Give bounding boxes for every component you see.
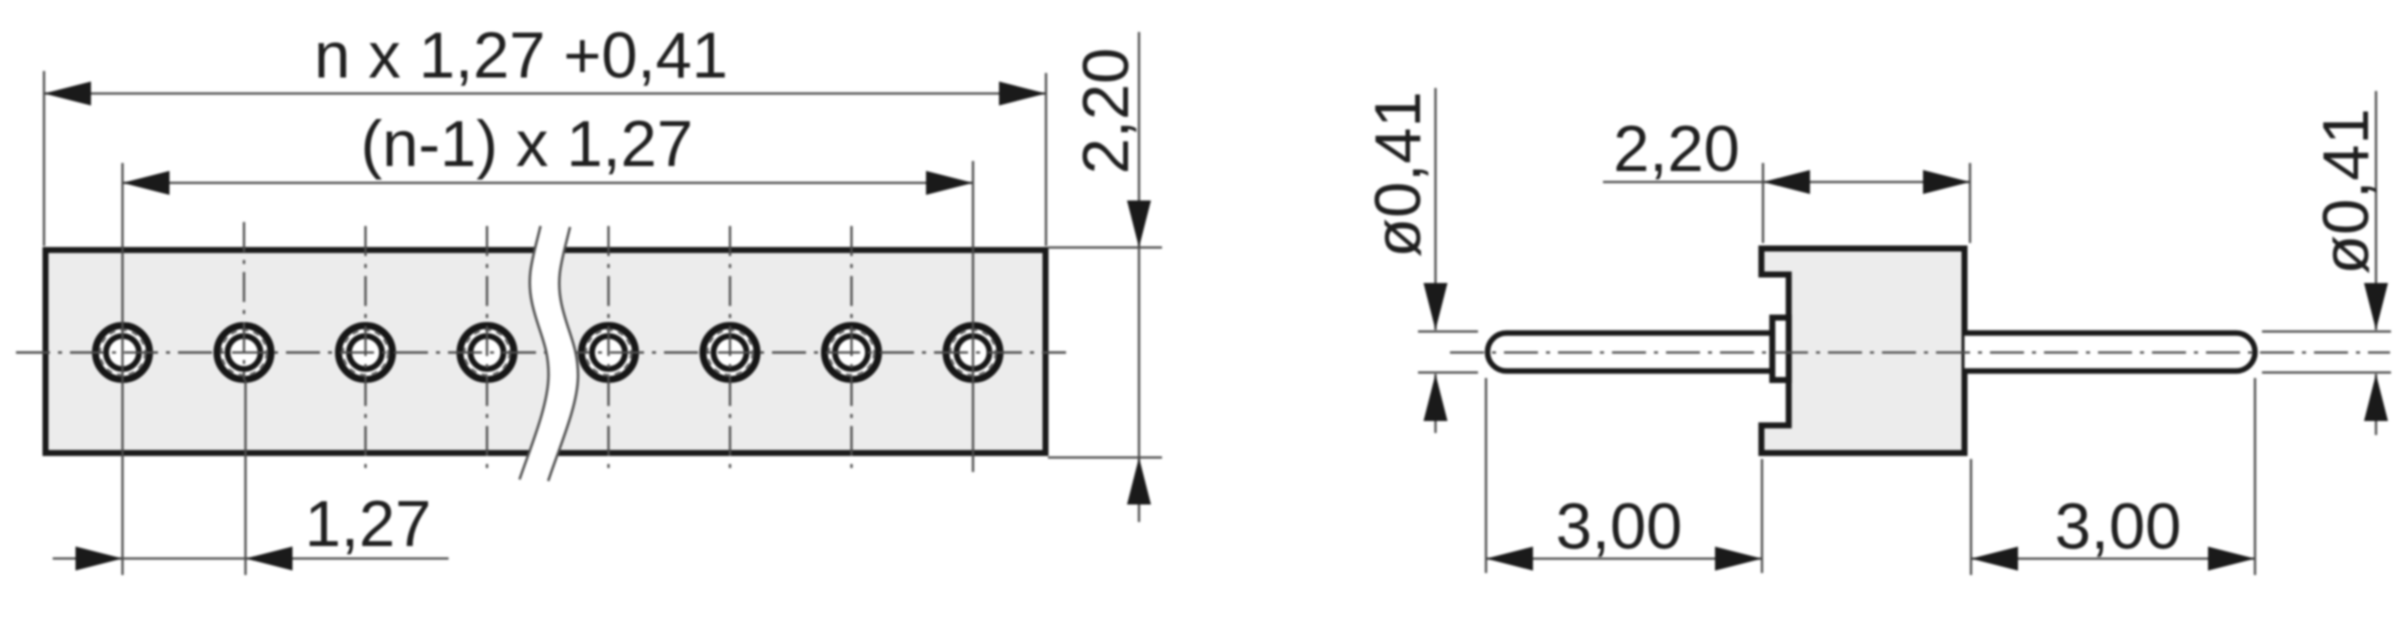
dimension 3,00 left line — [1486, 557, 1762, 559]
arrowhead pointing left at pin left end — [1486, 547, 1533, 571]
pin head in notch — [1772, 318, 1788, 380]
dimension 2,20 line right view — [1603, 181, 1970, 183]
pin 6 vertical centerline — [729, 226, 731, 472]
left pin rod — [1488, 333, 1773, 371]
arrowhead pointing left at body left — [1763, 170, 1810, 194]
centerline over holes — [16, 351, 1066, 353]
extension line right edge (top dim) — [1045, 73, 1047, 246]
arrowhead down at pin top left — [1424, 283, 1448, 330]
arrowhead pointing left at pin2 — [246, 547, 293, 571]
pin 8 vertical extension line — [972, 161, 974, 472]
pin hole 4 — [456, 322, 517, 383]
arrowhead pointing right at body right — [1923, 170, 1970, 194]
svg-text:ø0,41: ø0,41 — [1361, 91, 1434, 257]
arrowhead pointing left at body right — [1971, 547, 2018, 571]
dimension line ø0,41 right — [2375, 91, 2377, 330]
pin 2 vertical centerline — [243, 222, 245, 380]
arrowhead pointing right at pin right end — [2208, 547, 2255, 571]
arrowhead pointing right at body left — [1715, 547, 1762, 571]
pin hole 2 — [213, 322, 274, 383]
svg-text:2,20: 2,20 — [1069, 48, 1142, 175]
svg-text:ø0,41: ø0,41 — [2309, 108, 2382, 274]
svg-text:n x 1,27 +0,41: n x 1,27 +0,41 — [314, 19, 728, 92]
arrowhead up at strip bottom — [1127, 458, 1151, 505]
pin hole 8 — [942, 322, 1003, 383]
ext line pin right end (3,00) — [2254, 378, 2256, 575]
pin 1 vertical extension line — [121, 163, 123, 575]
ext line body right bottom (3,00) — [1970, 459, 1972, 575]
arrowhead right of (n-1) dim — [926, 171, 973, 195]
pin hole 7 — [821, 322, 882, 383]
arrowhead up at pin bottom left — [1424, 374, 1448, 421]
break: white band between wavy lines — [520, 226, 579, 481]
ext line pin top edge right — [2262, 330, 2391, 332]
svg-text:3,00: 3,00 — [2055, 490, 2182, 563]
arrowhead down at pin top right — [2364, 283, 2388, 330]
ext line pin left end (3,00) — [1485, 378, 1487, 573]
ext line body right (2,20) — [1969, 163, 1971, 243]
arrowhead pointing right at pin1 — [76, 547, 123, 571]
pin 5 vertical centerline — [607, 226, 609, 472]
right view centerline — [1450, 351, 2390, 353]
break wavy line right — [548, 227, 578, 481]
svg-text:3,00: 3,00 — [1556, 490, 1683, 563]
ext line pin bottom edge right — [2262, 371, 2391, 373]
dimension 2,20 vertical line — [1138, 32, 1140, 522]
ext line pin top edge left — [1418, 330, 1478, 332]
pin hole 1 — [92, 322, 153, 383]
svg-text:2,20: 2,20 — [1613, 112, 1740, 185]
ext line body left (2,20) — [1762, 163, 1764, 243]
pin hole 6 — [699, 322, 760, 383]
ext line body left bottom (3,00) — [1761, 459, 1763, 573]
extension line strip top right corner — [1048, 246, 1162, 248]
ext line pin bottom edge left — [1418, 371, 1478, 373]
dimension 1,27 line — [53, 557, 449, 559]
arrowhead left of (n-1) dim — [123, 171, 170, 195]
arrowhead left of top dim — [44, 82, 91, 106]
svg-text:1,27: 1,27 — [305, 487, 432, 560]
right pin rod — [1965, 333, 2256, 371]
svg-text:(n-1) x 1,27: (n-1) x 1,27 — [361, 107, 693, 180]
break wavy line left — [520, 226, 549, 480]
arrowhead right of top dim — [999, 82, 1046, 106]
insulator body with notch — [1761, 249, 1964, 454]
extension line left edge (top dim) — [43, 71, 45, 246]
pin 4 vertical centerline — [486, 226, 488, 472]
horizontal centerline — [16, 351, 1066, 353]
dimension n x 1,27 +0,41 line — [44, 92, 1046, 94]
pin hole 5 — [578, 322, 639, 383]
arrowhead up at pin bottom right — [2364, 374, 2388, 421]
pin 2 extension line to 1,27 dim — [244, 380, 246, 575]
dimension 3,00 right line — [1971, 557, 2255, 559]
header strip body — [46, 250, 1046, 453]
extension line strip bottom right corner — [1048, 456, 1162, 458]
pin 3 vertical centerline — [364, 226, 366, 472]
arrowhead down at strip top — [1127, 201, 1151, 248]
pin 7 vertical centerline — [850, 226, 852, 472]
pin hole 3 — [335, 322, 396, 383]
dimension (n-1) x 1,27 line — [123, 182, 974, 184]
dimension line ø0,41 left — [1434, 88, 1436, 330]
